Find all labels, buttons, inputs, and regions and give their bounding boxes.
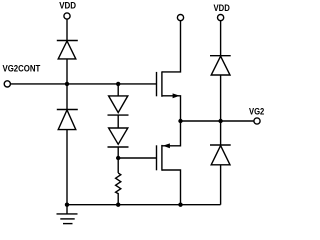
svg-text:VDD: VDD	[59, 1, 76, 11]
svg-text:VG2: VG2	[249, 106, 264, 116]
svg-text:VDD: VDD	[214, 3, 231, 13]
svg-text:VG2CONT: VG2CONT	[3, 63, 41, 73]
